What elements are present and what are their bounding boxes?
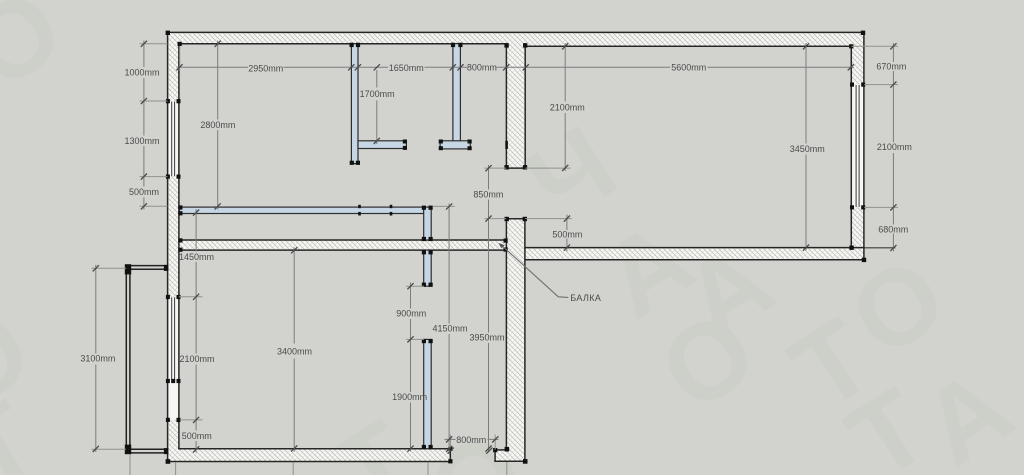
wire ext window2 top	[179, 296, 203, 298]
wire bottom right piece left edge	[494, 450, 496, 461]
node P2 foot right end	[468, 140, 472, 144]
wire big-room bottom wall bottom edge	[525, 259, 864, 261]
svg-text:680mm: 680mm	[878, 224, 908, 234]
wire dim 4150 x=449.1	[448, 204, 450, 452]
svg-text:2100mm: 2100mm	[179, 354, 214, 364]
wire far-left chain x=95.8	[95, 265, 97, 452]
wire dim 850/3950 x=488.5	[488, 165, 490, 452]
svg-text:БАЛКА: БАЛКА	[570, 293, 601, 303]
node window W2 bottom jambs	[166, 379, 170, 383]
wire big-room bottom wall top edge extension (dark, to right chain)	[864, 247, 895, 249]
wire right wall inner edge	[850, 46, 852, 247]
wire left wall outer edge	[167, 32, 169, 461]
wall left (exterior), upper segment	[168, 32, 179, 101]
partition P4 middle (below beam)	[424, 250, 432, 286]
wire dim 500 beam x=566.9	[566, 215, 568, 252]
wire ext P3 corner to 4150	[433, 205, 455, 207]
svg-text:3400mm: 3400mm	[277, 346, 312, 356]
extension lines	[92, 44, 899, 475]
БАЛКА leader line	[500, 244, 569, 298]
svg-text:2100mm: 2100mm	[877, 142, 912, 152]
node P3 left end joints	[178, 205, 182, 209]
node P3 T-mark 2	[390, 205, 393, 208]
node P2 foot left end	[439, 140, 443, 144]
wire beam top edge	[180, 239, 507, 241]
svg-text:1700mm: 1700mm	[360, 89, 395, 99]
node middle wall edge notch	[505, 141, 508, 149]
wire top wall inner edge left	[180, 43, 507, 45]
wire middle wall left edge	[505, 44, 507, 168]
balcony bottom glazing double line	[126, 449, 167, 453]
node ticks top chain	[176, 64, 854, 70]
wall top (exterior), left part	[168, 32, 507, 43]
svg-text:3100mm: 3100mm	[80, 354, 115, 364]
wire dim 1700 x=376.8	[376, 70, 378, 144]
partition P4 lower (below door gap)	[424, 339, 432, 448]
wire top wall inner edge right	[525, 45, 851, 47]
wire faint line below bottom wall 2	[292, 462, 294, 475]
node bottom wall right end corners	[448, 447, 452, 451]
wire ext P4 door bottom	[406, 338, 424, 340]
node ticks 900/1900	[407, 283, 413, 452]
svg-text:1300mm: 1300mm	[124, 136, 159, 146]
wall lower-right vertical (of lower-left section)	[506, 219, 525, 462]
node P2 top joints	[451, 43, 455, 47]
node window W3 top jambs	[850, 83, 854, 87]
partition P1 vertical (2950/1650 divider)	[351, 44, 358, 164]
node right wall bottom outer corner	[862, 258, 866, 262]
window W2 middle lines	[172, 297, 175, 380]
node P1 bottom end	[350, 161, 354, 165]
wall middle vertical (between upper rooms)	[506, 44, 525, 168]
wire dim 3450 x=806	[805, 43, 807, 251]
svg-text:850mm: 850mm	[473, 189, 503, 199]
svg-text:2100mm: 2100mm	[550, 102, 585, 112]
wall right (exterior), lower segment	[851, 207, 864, 259]
node ticks 500 beam	[564, 216, 570, 251]
node P4 middle bottom joints (door jamb)	[422, 283, 426, 287]
wire left outer chain x=143.9	[143, 41, 145, 210]
wire ext P4 door top	[406, 285, 424, 287]
wire top chain y=67.3	[177, 66, 855, 68]
node ticks left inner chain	[193, 210, 199, 453]
node top-left outer corner	[166, 31, 170, 35]
wire bottom right piece top edge	[495, 449, 506, 451]
node middle wall top joints	[504, 43, 508, 47]
БАЛКА leader arrowhead	[499, 243, 505, 248]
node window W1 bottom jambs	[166, 175, 170, 179]
node bottom-right outer corner	[523, 459, 528, 464]
svg-text:1650mm: 1650mm	[389, 63, 424, 73]
wire ext left y=101	[140, 100, 168, 102]
node bottom-left outer corner	[166, 459, 171, 464]
wire bottom wall right end edge	[449, 449, 451, 462]
node ticks 800 door	[446, 436, 498, 454]
wire ext right window top	[864, 84, 898, 86]
window W1 fill (left wall upper)	[168, 101, 178, 177]
wire ext right window bottom	[864, 206, 898, 208]
wire left inner chain x=196.1	[195, 209, 197, 453]
balcony top glazing double line	[126, 266, 167, 270]
node ticks 1700	[374, 64, 380, 144]
balcony bottom wall attach dot	[164, 448, 168, 454]
wire right wall outer edge	[863, 32, 865, 259]
wire bottom wall top edge	[179, 448, 450, 450]
wall left (exterior), middle segment	[168, 177, 179, 297]
wire right chain x=893.4	[892, 43, 894, 252]
node ticks 2100 room	[562, 43, 568, 171]
node top-left inner corner	[178, 42, 182, 46]
partition P2 vertical (1650/800 divider)	[453, 44, 461, 149]
wire dim 800 door y=439.4	[445, 438, 499, 440]
wire faint line below balcony corner	[129, 454, 131, 475]
svg-text:2800mm: 2800mm	[200, 120, 235, 130]
partition P1 arm (horizontal foot)	[358, 141, 406, 149]
wire faint line below right wall	[506, 462, 508, 475]
wire ext left y=206.3	[140, 205, 168, 207]
partition P3 horizontal (hall wall)	[180, 207, 424, 213]
partition P4 upper (corner down to beam)	[424, 207, 432, 240]
wire middle wall bottom edge	[506, 167, 525, 169]
balcony bottom-left corner post	[125, 445, 131, 455]
svg-text:1000mm: 1000mm	[124, 68, 159, 78]
node P1 top joints	[350, 43, 354, 47]
node big-room bottom wall inner corner	[849, 246, 853, 250]
wire ext left y=43.8	[140, 43, 168, 45]
node ticks 2800	[215, 41, 221, 210]
wire dim 2100 room x=565.2	[564, 43, 566, 171]
wire beam bottom edge	[180, 249, 507, 251]
svg-text:3950mm: 3950mm	[469, 333, 504, 343]
node ticks 3450	[803, 43, 809, 251]
svg-text:670mm: 670mm	[876, 62, 906, 72]
node balcony door bottom jambs	[166, 418, 170, 422]
node window W2 top jambs	[166, 295, 170, 299]
window W1 middle lines	[172, 102, 175, 177]
svg-text:1900mm: 1900mm	[392, 392, 427, 402]
wire dim 2800 x=217.7	[217, 41, 219, 210]
wire lower-right wall right edge	[524, 219, 526, 462]
node top-right outer corner	[861, 31, 865, 35]
window W3 middle lines	[856, 85, 859, 207]
balcony top-left corner post	[125, 264, 131, 274]
svg-text:800mm: 800mm	[467, 62, 497, 72]
wall left (exterior), lower segment	[168, 420, 179, 462]
node P3 T-mark 1	[358, 205, 361, 208]
wire ext door850 bottom left	[485, 167, 507, 169]
wire ext balcony bottom	[92, 448, 126, 450]
wire ext left y=176.6	[140, 176, 168, 178]
node ticks 850 / 3950	[485, 165, 491, 452]
wire left wall inner edge	[178, 44, 180, 449]
wire ext bottom door right	[494, 435, 496, 450]
wire middle wall right edge	[524, 44, 526, 168]
node ticks left outer chain	[141, 41, 147, 210]
window W2 + balcony door fill (left wall lower)	[168, 297, 178, 420]
wire ext door850 bottom right	[525, 167, 570, 169]
wall bottom (lower-left section)	[168, 449, 451, 462]
svg-text:2950mm: 2950mm	[248, 64, 283, 74]
svg-text:800mm: 800mm	[456, 435, 486, 445]
node window W1 top jambs	[166, 99, 170, 103]
wire faint line below bottom wall 1	[175, 462, 177, 475]
wire ext lower wall top right	[525, 218, 572, 220]
tick slashes	[93, 41, 897, 454]
svg-text:1450mm: 1450mm	[179, 252, 214, 262]
node P4 lower bottom joints	[422, 445, 426, 449]
wire lower-right wall left edge	[505, 219, 507, 450]
wire top wall outer edge	[168, 31, 864, 33]
svg-text:3450mm: 3450mm	[790, 144, 825, 154]
svg-text:900mm: 900mm	[396, 308, 426, 318]
svg-text:500mm: 500mm	[552, 229, 582, 239]
node top-right inner corner	[849, 44, 853, 48]
wire ext lower wall top left	[485, 218, 507, 220]
node P4 middle top joints	[422, 250, 426, 254]
node ticks 3400	[291, 247, 297, 451]
svg-text:5600mm: 5600mm	[671, 63, 706, 73]
node window W3 bottom jambs	[850, 205, 854, 209]
node ticks far-left chain	[93, 265, 99, 452]
svg-text:500mm: 500mm	[182, 431, 212, 441]
wire faint line below bottom wall 3	[427, 462, 429, 475]
wire ext bottom door left	[449, 435, 451, 449]
node ticks 4150	[446, 203, 452, 452]
wall right (exterior), upper segment	[851, 32, 864, 84]
svg-text:4150mm: 4150mm	[432, 324, 467, 334]
wire dim 3400 x=294.2	[293, 247, 295, 452]
wire ext balcony top	[92, 267, 127, 269]
wire ext balcony-door bottom	[180, 419, 203, 421]
wire ext corner down to top chain	[179, 46, 181, 71]
wire dim 900/1900 x=410.5	[410, 283, 412, 452]
node middle wall bottom corners	[504, 165, 508, 169]
node lower-right wall top corners	[505, 217, 509, 221]
svg-text:500mm: 500mm	[129, 187, 159, 197]
wall top (exterior), right part	[506, 32, 864, 46]
dimension lines	[96, 41, 894, 453]
node beam left end joints	[178, 238, 182, 242]
wire lower-right wall top edge	[506, 218, 525, 220]
node P4 upper bottom joints	[422, 237, 426, 241]
wall bottom right piece (door jamb corner)	[495, 450, 525, 461]
wire big-room bottom wall top edge	[525, 247, 864, 249]
node bottom right piece corners	[493, 448, 497, 452]
partition P2 foot (T)	[440, 141, 470, 149]
wall bottom of big room	[525, 248, 864, 260]
beam БАЛКА (hatched band)	[180, 240, 507, 250]
wire ext right inner face y=46.3	[851, 45, 898, 47]
wire bottom right piece bottom edge	[495, 460, 525, 462]
wire bottom wall bottom edge	[168, 461, 451, 463]
node P3/P4 corner joints	[422, 206, 426, 210]
node P1 arm right end	[403, 140, 407, 144]
node ticks right chain	[890, 43, 896, 251]
node beam right end joints	[504, 239, 508, 243]
balcony left glazing double line	[126, 265, 130, 453]
node P4 lower top joints (door jamb)	[422, 339, 426, 343]
window W3 fill (right wall)	[852, 85, 863, 208]
balcony top wall attach dot	[164, 265, 168, 271]
